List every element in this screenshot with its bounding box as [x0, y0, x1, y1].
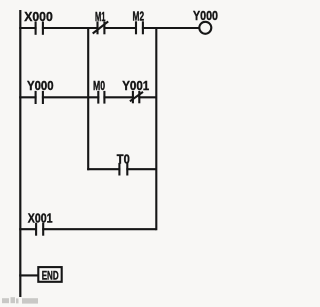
svg-text:Y000: Y000: [27, 78, 54, 93]
svg-text:M1: M1: [95, 9, 106, 24]
svg-text:X000: X000: [24, 9, 53, 24]
svg-text:X001: X001: [28, 211, 53, 226]
svg-text:Y001: Y001: [122, 78, 149, 93]
svg-text:M0: M0: [93, 78, 105, 93]
svg-text:Y000: Y000: [193, 9, 218, 23]
svg-text:M2: M2: [133, 9, 145, 24]
svg-text:T0: T0: [117, 151, 130, 166]
svg-text:END: END: [42, 268, 59, 282]
